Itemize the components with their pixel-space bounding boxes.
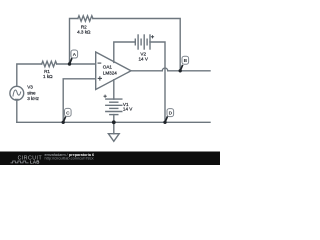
svg-text:14 V: 14 V <box>123 106 133 111</box>
svg-text:LM324: LM324 <box>103 70 117 75</box>
svg-text:http://circuitlab.com/cuh78cx: http://circuitlab.com/cuh78cx <box>45 156 94 161</box>
svg-text:1 kΩ: 1 kΩ <box>43 74 53 79</box>
svg-text:B: B <box>184 58 188 64</box>
svg-text:OA1: OA1 <box>103 65 113 70</box>
svg-text:14 V: 14 V <box>138 57 148 62</box>
svg-text:sine: sine <box>27 91 36 96</box>
svg-text:4.3 kΩ: 4.3 kΩ <box>77 30 91 35</box>
svg-text:A: A <box>73 52 77 58</box>
svg-text:C: C <box>66 110 70 116</box>
svg-text:LAB: LAB <box>30 160 40 165</box>
svg-text:V3: V3 <box>27 85 33 90</box>
svg-text:D: D <box>169 111 173 117</box>
svg-text:3 kHz: 3 kHz <box>27 96 39 101</box>
